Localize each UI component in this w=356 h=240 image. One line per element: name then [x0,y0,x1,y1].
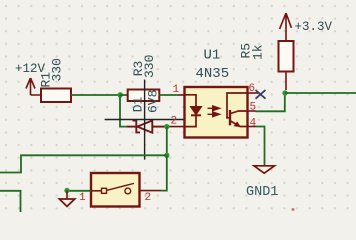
pin 1 stub [178,94,185,96]
pin 2 stub [167,126,185,128]
ground stub [66,191,68,199]
switch pin 1 wire [91,190,102,192]
wire R3 to U1 pin 1 [159,94,178,96]
svg-text:GND1: GND1 [246,185,278,200]
ground symbol GND1 [254,166,275,173]
svg-text:4: 4 [250,118,257,130]
node C junction [164,153,169,158]
node A junction [118,92,123,97]
svg-text:4N35: 4N35 [196,66,230,82]
supply +12V [26,78,41,95]
stray mark bottom [292,208,295,211]
junction at switch pin1 [64,188,69,193]
ground symbol left [59,199,74,206]
pin 4 stub [248,126,257,128]
node B junction [164,124,169,129]
switch S [91,173,140,207]
wire pin5 to node D [256,93,285,111]
zener diode D1 6V8 [127,121,167,133]
svg-text:330: 330 [142,55,157,78]
svg-text:+3.3V: +3.3V [295,20,333,34]
wire node D to right edge [285,92,356,94]
wire node A down to zener [120,95,127,127]
wire node A to R3 [120,94,128,96]
long wire to left [0,155,167,172]
U1 LED [185,95,202,127]
supply +3.3V [280,13,292,41]
svg-text:D1: D1 [130,96,145,112]
svg-text:6: 6 [249,83,256,95]
cursor crosshair [105,80,185,160]
switch pin 2 stub [131,190,161,192]
svg-text:5: 5 [250,102,257,114]
lower-left wire [0,191,21,212]
wire node C down to switch pin 2 [161,155,167,190]
svg-text:1: 1 [79,192,86,204]
op-to-coupler U1 box [185,87,248,138]
node D junction [282,90,287,95]
pin 5 stub [248,110,256,112]
svg-text:1: 1 [173,84,180,96]
resistor R1 [39,58,72,102]
pin 6 stub [248,92,259,94]
svg-text:1k: 1k [251,44,266,60]
svg-text:U1: U1 [204,48,221,64]
no-connect cross pin 6 [256,90,266,99]
U1 light arrows [208,106,220,117]
wire pin4 to ground [256,127,265,166]
U1 phototransistor [227,93,248,127]
wire node B down to node C [166,127,168,156]
resistor R3 [128,55,160,101]
svg-text:2: 2 [171,116,178,128]
wire R1 to node A [71,94,120,96]
svg-text:2: 2 [145,192,152,204]
svg-text:330: 330 [50,58,65,81]
svg-text:6V8: 6V8 [146,90,161,113]
resistor R5 [239,41,294,90]
